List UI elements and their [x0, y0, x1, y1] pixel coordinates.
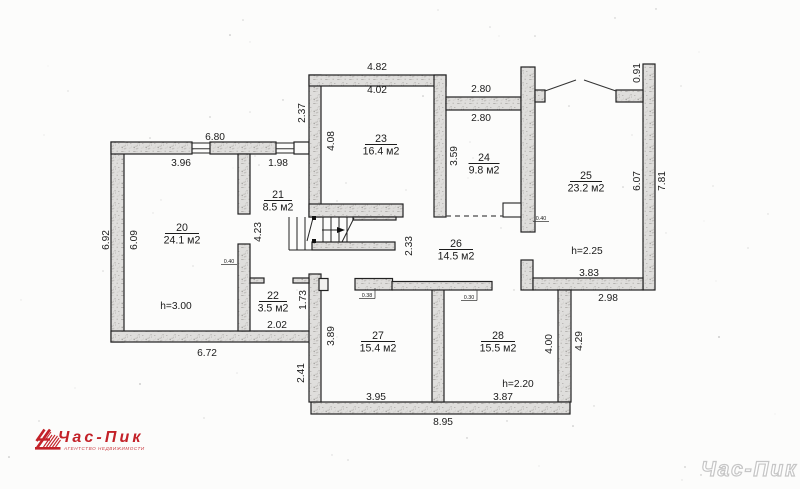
wall stairwell south band — [312, 242, 395, 250]
svg-text:2.37: 2.37 — [297, 103, 308, 123]
wall room23 north — [309, 75, 446, 86]
stairwell north band lip — [353, 217, 396, 220]
svg-text:4.08: 4.08 — [326, 131, 337, 151]
door swing lines room25 entrance — [545, 80, 576, 91]
door jamb stub room25 north — [616, 90, 643, 102]
stub east of room22 wall (room27 north-west) — [319, 279, 328, 291]
window lines in north wall gap 1 — [192, 142, 210, 144]
svg-text:6.09: 6.09 — [129, 230, 140, 250]
svg-text:Час-Пик: Час-Пик — [701, 458, 797, 481]
svg-text:25: 25 — [580, 170, 592, 182]
svg-text:1.98: 1.98 — [268, 158, 288, 169]
svg-text:16.4 м2: 16.4 м2 — [363, 146, 400, 158]
wall left outer (room 20 west) — [111, 142, 124, 342]
svg-text:23: 23 — [375, 133, 387, 145]
svg-text:2.41: 2.41 — [296, 363, 307, 383]
svg-text:6.92: 6.92 — [101, 230, 112, 250]
wall room20 north seg2 — [210, 142, 276, 154]
svg-text:27: 27 — [372, 330, 384, 342]
svg-text:h=2.20: h=2.20 — [502, 379, 534, 390]
thin partition right of divider (room22 north-west) — [250, 278, 264, 283]
svg-text:3.83: 3.83 — [579, 268, 599, 279]
svg-text:3.87: 3.87 — [493, 392, 513, 403]
svg-text:Час-Пик: Час-Пик — [58, 429, 144, 446]
svg-text:26: 26 — [450, 238, 462, 250]
wall room23/24 east — [434, 75, 446, 217]
svg-text:23.2 м2: 23.2 м2 — [568, 183, 605, 195]
svg-text:3.89: 3.89 — [326, 326, 337, 346]
svg-text:0.91: 0.91 — [632, 63, 643, 83]
svg-text:h=2.25: h=2.25 — [571, 246, 603, 257]
wall room24 east pier — [521, 67, 535, 232]
svg-text:6.80: 6.80 — [205, 132, 225, 143]
svg-text:28: 28 — [492, 330, 504, 342]
svg-text:4.23: 4.23 — [253, 222, 264, 242]
svg-text:14.5 м2: 14.5 м2 — [438, 251, 475, 263]
svg-text:21: 21 — [272, 189, 284, 201]
svg-text:8.5 м2: 8.5 м2 — [263, 202, 294, 214]
svg-text:2.98: 2.98 — [598, 293, 618, 304]
svg-text:4.29: 4.29 — [574, 331, 585, 351]
wall room27 north seg (0.38 part) — [355, 279, 393, 291]
svg-text:h=3.00: h=3.00 — [160, 301, 192, 312]
wall room22/27 west vertical — [309, 274, 321, 402]
svg-text:2.80: 2.80 — [471, 113, 491, 124]
vent shaft box room24 south (0.40) — [503, 203, 521, 217]
svg-text:15.5 м2: 15.5 м2 — [480, 343, 517, 355]
wall room25 south — [533, 278, 643, 290]
svg-text:2.02: 2.02 — [267, 320, 287, 331]
svg-text:3.59: 3.59 — [449, 146, 460, 166]
staircase — [289, 217, 354, 250]
wall stairwell north band — [309, 204, 403, 217]
thin partition left of room27 wall (room22 north-east) — [293, 278, 309, 283]
svg-text:24.1 м2: 24.1 м2 — [164, 235, 201, 247]
svg-text:3.5 м2: 3.5 м2 — [258, 303, 289, 315]
white pier at north wall east end — [294, 142, 309, 154]
wall room25 south-west vertical — [521, 260, 533, 290]
svg-text:6.07: 6.07 — [632, 171, 643, 191]
svg-text:1.73: 1.73 — [298, 290, 309, 310]
wall rooms20/21 divider upper — [238, 154, 250, 214]
wall corridor north (2.80) — [446, 97, 521, 110]
svg-text:6.72: 6.72 — [197, 348, 217, 359]
svg-text:2.80: 2.80 — [471, 84, 491, 95]
wall room20 north seg1 — [111, 142, 192, 154]
dashed line room24/26 boundary — [446, 215, 503, 217]
wall rooms27-28 south outer — [311, 402, 570, 414]
wall rooms27/28 divider — [432, 290, 444, 403]
svg-text:АГЕНТСТВО НЕДВИЖИМОСТИ: АГЕНТСТВО НЕДВИЖИМОСТИ — [63, 446, 145, 451]
svg-text:8.95: 8.95 — [433, 417, 453, 428]
svg-text:15.4 м2: 15.4 м2 — [360, 343, 397, 355]
svg-text:3.96: 3.96 — [171, 158, 191, 169]
svg-text:7.81: 7.81 — [657, 171, 668, 191]
wall room28 east — [558, 290, 571, 402]
svg-text:22: 22 — [267, 290, 279, 302]
wall room23 west — [309, 75, 321, 217]
svg-text:9.8 м2: 9.8 м2 — [469, 165, 500, 177]
window lines in north wall gap 2 — [276, 142, 294, 144]
door jamb stub right of room24 east wall — [535, 90, 545, 102]
svg-text:4.82: 4.82 — [367, 62, 387, 73]
wall rooms20-22 south (6.72) — [111, 331, 315, 342]
wall rooms20/22 divider lower — [238, 244, 250, 331]
wall outer east (room25) — [643, 64, 655, 290]
wall rooms27/28 north band — [392, 282, 492, 291]
svg-text:20: 20 — [176, 222, 188, 234]
svg-text:24: 24 — [478, 152, 490, 164]
svg-text:4.00: 4.00 — [544, 334, 555, 354]
logo Chas-Pik icon (bottom left) — [35, 430, 61, 449]
svg-text:4.02: 4.02 — [367, 85, 387, 96]
svg-text:2.33: 2.33 — [404, 236, 415, 256]
svg-text:3.95: 3.95 — [366, 392, 386, 403]
